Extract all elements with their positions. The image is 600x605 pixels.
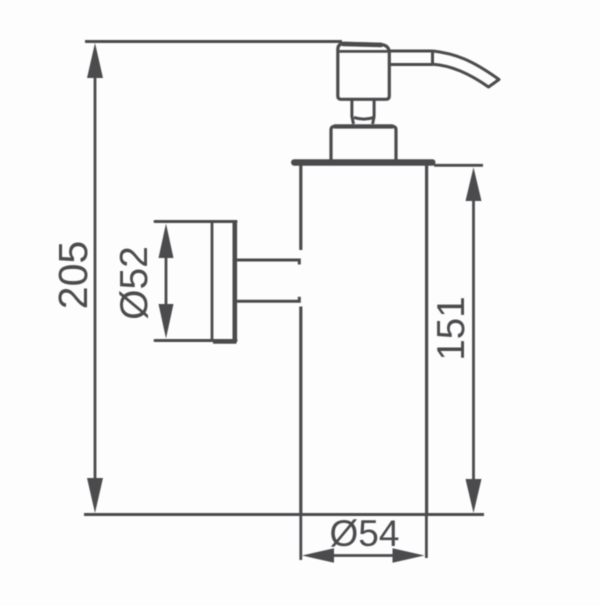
label 151 [430, 296, 473, 360]
arrowhead 151 bottom [466, 479, 482, 513]
wall plate inner line [211, 222, 214, 341]
pump head [338, 43, 390, 99]
mounting arm lower [237, 297, 299, 302]
extension line bottom (body base) [84, 513, 484, 516]
svg-text:Ø52: Ø52 [113, 246, 156, 320]
spout straight section [388, 51, 433, 65]
pump head cap line [339, 50, 387, 53]
svg-text:205: 205 [50, 241, 96, 309]
extension line phi54 left [299, 515, 302, 561]
wall plate bottom edge [155, 339, 236, 342]
arrowhead phi54 right [393, 548, 425, 562]
svg-text:Ø54: Ø54 [330, 513, 400, 554]
arrowhead phi52 top [159, 224, 174, 259]
label 205 [50, 241, 96, 309]
pump neck [352, 100, 374, 125]
pump collar top edge thick [334, 124, 393, 128]
arrowhead 205 bottom [87, 478, 103, 513]
arrowhead phi54 left [302, 548, 334, 562]
wall plate face (thick) [233, 220, 238, 342]
pump head top cap thick edge [343, 44, 381, 45]
pump collar [331, 126, 396, 161]
wall plate bottom face segment [213, 341, 237, 344]
arrowhead phi52 bottom [159, 304, 174, 339]
arrowhead 151 top [466, 167, 482, 201]
extension line 151 top [434, 164, 483, 167]
dimension line 151 [472, 185, 475, 495]
cylinder body right edge [425, 166, 428, 515]
svg-text:151: 151 [430, 296, 473, 360]
spout curved section [433, 51, 499, 87]
extension line top (to pump head) [85, 40, 342, 43]
dimension line phi52 [165, 255, 168, 307]
wall plate top edge [155, 220, 236, 223]
flange (mounting plate bar) [291, 159, 436, 166]
cylinder body left edge lower [299, 307, 302, 515]
arrowhead 205 top [87, 43, 103, 78]
cylinder body left edge upper [299, 166, 302, 251]
extension line phi54 right [425, 515, 428, 559]
label phi52 [113, 246, 156, 320]
dimension line 205 [94, 60, 97, 495]
mounting arm upper [237, 260, 299, 265]
label phi54 [330, 513, 400, 554]
dimension line phi54 [332, 554, 394, 557]
